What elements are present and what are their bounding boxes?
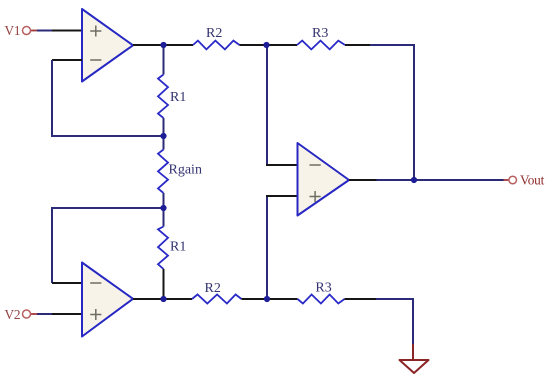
wire bottom-right corner <box>376 299 413 344</box>
svg-text:V2: V2 <box>5 307 21 322</box>
svg-text:R2: R2 <box>206 26 222 41</box>
resistor R2 <box>193 41 240 50</box>
svg-text:R3: R3 <box>312 26 328 41</box>
wire U3 +input vertical <box>266 196 268 299</box>
wire <box>52 313 82 315</box>
wire U2 output <box>133 298 192 300</box>
svg-text:Vout: Vout <box>520 172 545 187</box>
resistor R1 <box>158 75 168 119</box>
wire ground stub <box>412 344 414 359</box>
resistor R1 (second) <box>158 227 168 270</box>
junction <box>411 177 417 183</box>
terminal V2 <box>31 313 38 315</box>
wire <box>52 30 82 32</box>
wire <box>52 59 82 61</box>
resistor R3 <box>297 41 345 50</box>
wire U1 feedback <box>52 60 164 136</box>
wire <box>163 118 165 150</box>
terminal Vout <box>504 179 510 181</box>
junction <box>160 296 166 302</box>
wire U1 output <box>133 44 193 46</box>
junction <box>160 205 166 211</box>
wire <box>163 45 165 75</box>
wire <box>52 282 82 284</box>
terminal V1 <box>31 30 38 32</box>
op-amp U2 <box>82 263 133 337</box>
wire to Vout <box>377 179 504 181</box>
wire <box>266 164 298 166</box>
svg-text:Rgain: Rgain <box>169 163 202 178</box>
wire <box>163 269 165 299</box>
resistor Rgain <box>158 150 168 194</box>
wire <box>266 195 298 197</box>
wire U2 feedback <box>52 208 164 283</box>
wire <box>37 313 52 315</box>
resistor R2 (bottom) <box>192 295 242 304</box>
junction <box>264 296 270 302</box>
op-amp U1 <box>82 9 133 82</box>
svg-text:R2: R2 <box>205 281 221 296</box>
op-amp U3 <box>298 143 350 216</box>
ground <box>400 360 429 373</box>
wire U3 output <box>349 179 377 181</box>
wire <box>242 298 298 300</box>
wire <box>240 44 298 46</box>
wire <box>163 193 165 227</box>
wire <box>345 298 377 300</box>
wire U3 -input vertical <box>266 45 268 165</box>
junction <box>160 133 166 139</box>
wire <box>37 30 52 32</box>
svg-text:R3: R3 <box>315 281 331 296</box>
wire top-right corner <box>370 45 414 180</box>
resistor R3 (bottom) <box>298 295 345 304</box>
svg-text:R1: R1 <box>170 239 186 254</box>
wire <box>345 44 370 46</box>
svg-text:R1: R1 <box>170 90 186 105</box>
junction <box>160 42 166 48</box>
svg-text:V1: V1 <box>5 23 21 38</box>
junction <box>263 42 269 48</box>
